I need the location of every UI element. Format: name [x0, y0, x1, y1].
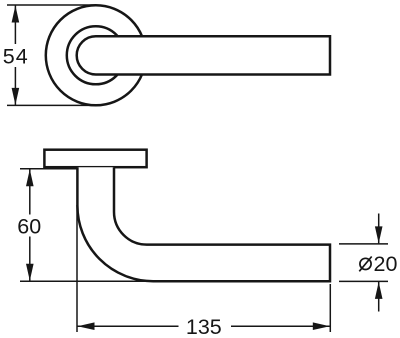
- dim 60 upper arrowhead: [26, 169, 34, 186]
- rose inner circle (front view): [67, 26, 125, 84]
- rose outer circle (front view): [46, 5, 146, 105]
- svg-text:135: 135: [186, 315, 222, 338]
- dim 54 line upper segment: [14, 6, 16, 45]
- dim 135 line left segment: [78, 325, 179, 327]
- dim 54 upper arrowhead: [12, 6, 20, 23]
- svg-text:20: 20: [374, 252, 398, 276]
- dim 54 top extension line: [7, 4, 96, 6]
- dim 60 top extension line: [20, 168, 77, 170]
- rose disc (top view): [44, 150, 146, 168]
- dim 54 line lower segment: [14, 67, 16, 105]
- dim 60 line upper segment: [29, 169, 31, 214]
- dim 135 left extension line: [76, 205, 78, 332]
- dim 20 lower arrowhead: [375, 282, 383, 299]
- dim 60 bottom extension line: [20, 280, 155, 282]
- dim 20 lower arrow stem: [378, 282, 380, 312]
- dim 60 line lower segment: [29, 237, 31, 281]
- dim 54 bottom extension line: [7, 104, 100, 106]
- dim 20 upper arrowhead: [375, 226, 383, 243]
- dim 20 lower extension line: [339, 280, 388, 282]
- dim 135 left arrowhead: [78, 322, 95, 330]
- dim 20 upper extension line: [339, 243, 388, 245]
- dim 60 lower arrowhead: [26, 264, 34, 281]
- svg-text:60: 60: [17, 214, 41, 238]
- dim 135 line right segment: [231, 325, 330, 327]
- diameter symbol: [359, 257, 371, 272]
- dim 135 right arrowhead: [313, 322, 330, 330]
- dim 135 right extension line: [329, 284, 331, 332]
- svg-text:54: 54: [3, 44, 29, 68]
- handle profile (top view): neck, bend, grip bar: [77, 167, 330, 281]
- dim 20 upper arrow stem: [378, 214, 380, 244]
- dim 54 lower arrowhead: [12, 88, 20, 105]
- lever bar with rounded cap (front view): [77, 36, 330, 74]
